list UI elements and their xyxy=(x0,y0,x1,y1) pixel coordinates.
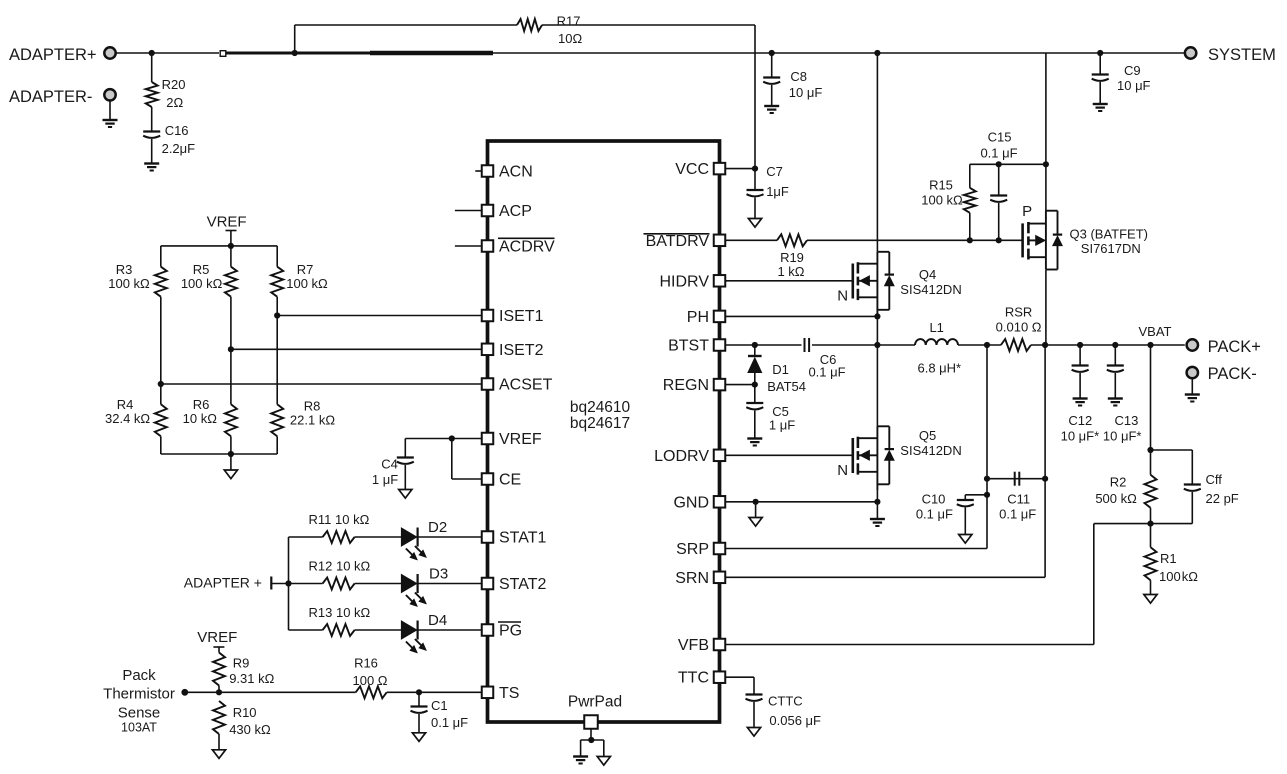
svg-text:22 pF: 22 pF xyxy=(1206,491,1239,506)
svg-text:SI7617DN: SI7617DN xyxy=(1081,241,1141,256)
svg-text:STAT1: STAT1 xyxy=(499,530,547,547)
svg-text:0.010 Ω: 0.010 Ω xyxy=(996,320,1042,335)
svg-text:R1: R1 xyxy=(1160,551,1177,566)
svg-text:R12 10 kΩ: R12 10 kΩ xyxy=(309,559,371,574)
svg-text:R9: R9 xyxy=(233,656,250,671)
svg-text:R16: R16 xyxy=(354,656,378,671)
svg-text:ACP: ACP xyxy=(499,203,532,220)
svg-text:ADAPTER +: ADAPTER + xyxy=(184,575,262,591)
svg-text:Q4: Q4 xyxy=(919,267,936,282)
svg-text:C12: C12 xyxy=(1068,413,1092,428)
svg-text:CTTC: CTTC xyxy=(768,694,803,709)
svg-text:VREF: VREF xyxy=(197,629,237,646)
svg-text:PG: PG xyxy=(499,623,522,640)
svg-text:P: P xyxy=(1022,203,1032,220)
svg-text:ACDRV: ACDRV xyxy=(499,239,555,256)
svg-text:SRN: SRN xyxy=(675,570,709,587)
svg-text:ISET1: ISET1 xyxy=(499,308,544,325)
svg-text:R6: R6 xyxy=(193,397,210,412)
svg-text:GND: GND xyxy=(673,494,709,511)
svg-text:0.1 μF: 0.1 μF xyxy=(980,146,1017,161)
svg-text:LODRV: LODRV xyxy=(654,448,709,465)
svg-text:BAT54: BAT54 xyxy=(767,379,806,394)
svg-text:C15: C15 xyxy=(988,130,1012,145)
svg-text:SRP: SRP xyxy=(676,541,709,558)
svg-text:Q5: Q5 xyxy=(919,428,936,443)
svg-text:D3: D3 xyxy=(429,566,448,583)
svg-text:32.4 kΩ: 32.4 kΩ xyxy=(105,411,150,426)
svg-text:500 kΩ: 500 kΩ xyxy=(1095,491,1137,506)
svg-text:6.8 μH*: 6.8 μH* xyxy=(917,360,961,375)
svg-text:22.1 kΩ: 22.1 kΩ xyxy=(290,413,335,428)
svg-text:ACSET: ACSET xyxy=(499,377,553,394)
svg-text:CE: CE xyxy=(499,472,521,489)
svg-text:R13 10 kΩ: R13 10 kΩ xyxy=(309,605,371,620)
svg-text:BATDRV: BATDRV xyxy=(646,233,710,250)
svg-text:9.31 kΩ: 9.31 kΩ xyxy=(229,671,274,686)
svg-text:R11 10 kΩ: R11 10 kΩ xyxy=(309,512,370,527)
svg-text:R7: R7 xyxy=(297,262,314,277)
svg-text:Pack: Pack xyxy=(122,667,156,684)
svg-text:D1: D1 xyxy=(772,362,789,377)
svg-text:100 kΩ: 100 kΩ xyxy=(108,276,150,291)
svg-text:1 μF: 1 μF xyxy=(769,418,795,433)
svg-text:1 μF: 1 μF xyxy=(372,472,398,487)
svg-text:ACN: ACN xyxy=(499,164,533,181)
svg-text:VBAT: VBAT xyxy=(1139,324,1172,339)
svg-text:TS: TS xyxy=(499,685,519,702)
svg-text:100 kΩ: 100 kΩ xyxy=(921,193,963,208)
svg-text:ADAPTER+: ADAPTER+ xyxy=(9,46,97,64)
svg-text:1 kΩ: 1 kΩ xyxy=(777,264,804,279)
svg-text:C13: C13 xyxy=(1114,413,1138,428)
svg-text:VCC: VCC xyxy=(675,161,709,178)
svg-text:R2: R2 xyxy=(1110,475,1127,490)
svg-text:R15: R15 xyxy=(929,178,953,193)
svg-text:C16: C16 xyxy=(165,123,189,138)
svg-text:10 μF: 10 μF xyxy=(1117,78,1151,93)
svg-text:VREF: VREF xyxy=(207,214,247,231)
svg-text:100 kΩ: 100 kΩ xyxy=(181,276,223,291)
svg-text:STAT2: STAT2 xyxy=(499,576,547,593)
svg-text:R10: R10 xyxy=(233,705,257,720)
svg-text:D2: D2 xyxy=(428,519,447,536)
svg-text:100 Ω: 100 Ω xyxy=(352,673,387,688)
svg-text:Thermistor: Thermistor xyxy=(103,686,175,703)
svg-text:BTST: BTST xyxy=(668,338,709,355)
svg-text:HIDRV: HIDRV xyxy=(660,273,710,290)
svg-text:C4: C4 xyxy=(381,457,398,472)
svg-text:430 kΩ: 430 kΩ xyxy=(229,722,271,737)
svg-text:103AT: 103AT xyxy=(121,721,157,735)
svg-text:100 kΩ: 100 kΩ xyxy=(286,276,328,291)
svg-text:2.2μF: 2.2μF xyxy=(162,141,196,156)
svg-text:10Ω: 10Ω xyxy=(558,31,582,46)
svg-text:0.1 μF: 0.1 μF xyxy=(916,507,953,522)
svg-text:0.056 μF: 0.056 μF xyxy=(769,713,821,728)
svg-text:Q3 (BATFET): Q3 (BATFET) xyxy=(1070,227,1148,242)
svg-text:Cff: Cff xyxy=(1206,472,1223,487)
svg-text:TTC: TTC xyxy=(678,670,709,687)
svg-text:100 kΩ: 100 kΩ xyxy=(1159,569,1198,584)
svg-text:ISET2: ISET2 xyxy=(499,342,544,359)
svg-text:R5: R5 xyxy=(193,262,210,277)
svg-text:10 kΩ: 10 kΩ xyxy=(183,411,218,426)
svg-text:PACK+: PACK+ xyxy=(1208,338,1261,356)
svg-text:C9: C9 xyxy=(1124,63,1141,78)
svg-text:SYSTEM: SYSTEM xyxy=(1208,46,1276,64)
svg-text:0.1 μF: 0.1 μF xyxy=(999,507,1036,522)
svg-text:REGN: REGN xyxy=(663,377,709,394)
svg-text:R20: R20 xyxy=(162,77,186,92)
svg-text:10 μF*: 10 μF* xyxy=(1061,429,1100,444)
svg-text:R3: R3 xyxy=(116,262,133,277)
svg-text:ADAPTER-: ADAPTER- xyxy=(9,88,92,106)
svg-text:C1: C1 xyxy=(431,698,448,713)
svg-text:C7: C7 xyxy=(766,164,783,179)
svg-text:C10: C10 xyxy=(922,492,946,507)
svg-text:PH: PH xyxy=(687,309,709,326)
svg-text:2Ω: 2Ω xyxy=(166,95,183,110)
svg-text:PwrPad: PwrPad xyxy=(568,694,622,711)
svg-text:Sense: Sense xyxy=(118,704,161,721)
svg-text:R19: R19 xyxy=(780,250,804,265)
svg-text:PACK-: PACK- xyxy=(1208,365,1257,383)
svg-text:bq24617: bq24617 xyxy=(570,415,630,432)
svg-text:10 μF: 10 μF xyxy=(789,85,823,100)
svg-text:VREF: VREF xyxy=(499,431,542,448)
svg-text:bq24610: bq24610 xyxy=(570,399,631,416)
svg-text:N: N xyxy=(837,287,848,304)
svg-text:R4: R4 xyxy=(117,397,134,412)
svg-text:VFB: VFB xyxy=(678,637,709,654)
svg-text:SIS412DN: SIS412DN xyxy=(900,443,961,458)
svg-text:SIS412DN: SIS412DN xyxy=(900,282,961,297)
svg-text:10 μF*: 10 μF* xyxy=(1103,429,1142,444)
svg-text:1μF: 1μF xyxy=(766,184,789,199)
svg-text:0.1 μF: 0.1 μF xyxy=(431,715,468,730)
svg-text:RSR: RSR xyxy=(1005,305,1032,320)
svg-text:R8: R8 xyxy=(304,399,321,414)
svg-text:L1: L1 xyxy=(929,320,943,335)
svg-text:D4: D4 xyxy=(428,612,447,629)
svg-text:C8: C8 xyxy=(790,69,807,84)
svg-text:R17: R17 xyxy=(557,14,581,29)
svg-text:0.1 μF: 0.1 μF xyxy=(808,365,845,380)
svg-text:N: N xyxy=(837,462,848,479)
svg-text:C11: C11 xyxy=(1007,492,1030,507)
